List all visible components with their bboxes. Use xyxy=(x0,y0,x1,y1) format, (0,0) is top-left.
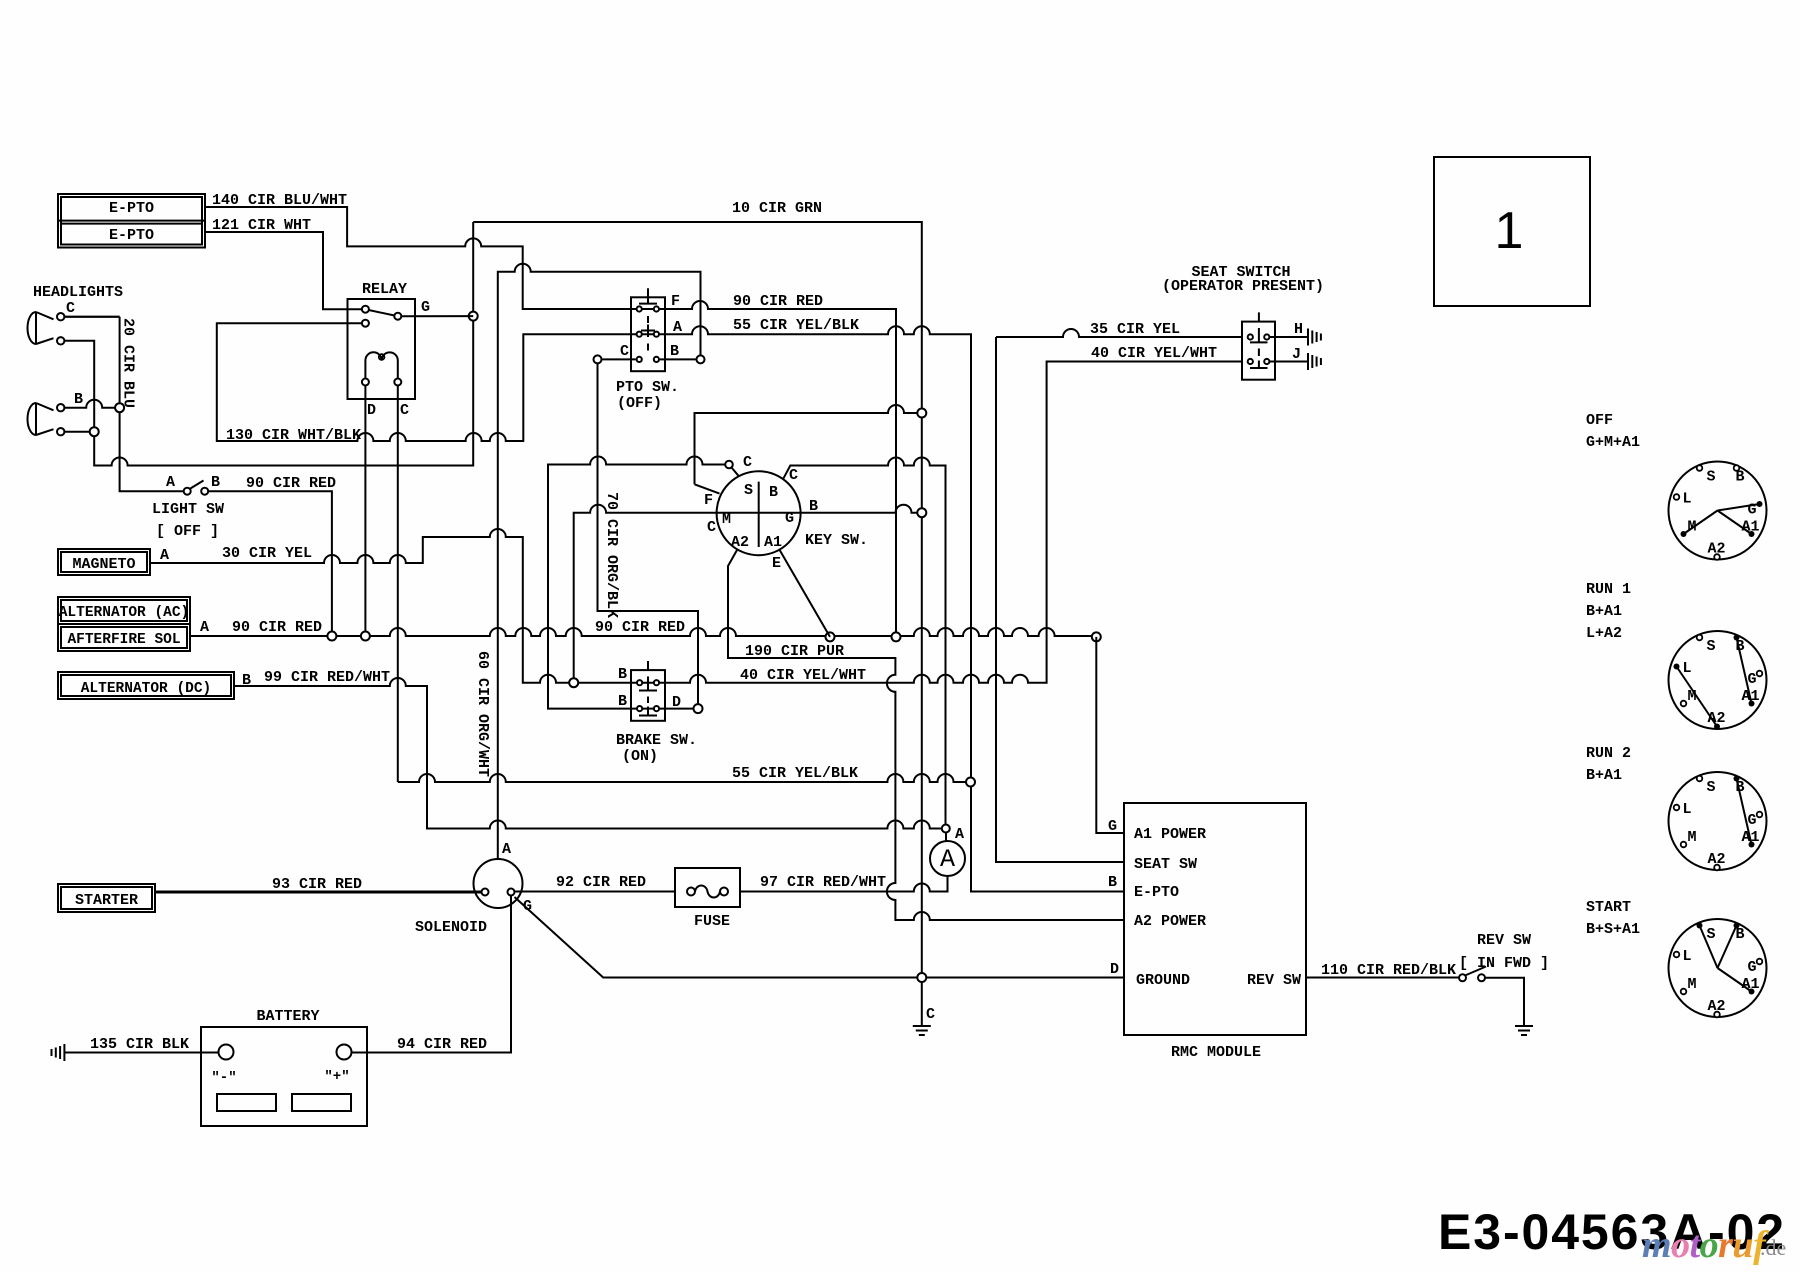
svg-text:M: M xyxy=(1688,976,1697,993)
svg-text:20 CIR BLU: 20 CIR BLU xyxy=(120,318,137,408)
component KEY SW circle xyxy=(717,471,801,555)
svg-text:G: G xyxy=(1748,812,1757,829)
svg-text:92 CIR RED: 92 CIR RED xyxy=(556,874,646,891)
wire 110 CIR RED/BLK xyxy=(1306,977,1459,979)
wire A1 POWER drop xyxy=(1096,637,1124,833)
component BATTERY box xyxy=(201,1027,367,1126)
svg-text:(ON): (ON) xyxy=(622,748,658,765)
wire 92 CIR RED xyxy=(515,891,676,893)
component relay box xyxy=(348,299,416,399)
PTO SW pin A right xyxy=(654,332,659,337)
svg-text:130 CIR WHT/BLK: 130 CIR WHT/BLK xyxy=(226,427,361,444)
wire 94 CIR RED xyxy=(352,896,512,1053)
svg-text:94 CIR RED: 94 CIR RED xyxy=(397,1036,487,1053)
svg-text:RUN 1: RUN 1 xyxy=(1586,581,1631,598)
svg-text:BRAKE SW.: BRAKE SW. xyxy=(616,732,697,749)
svg-text:ALTERNATOR (AC): ALTERNATOR (AC) xyxy=(59,605,190,621)
node G wire / 10 CIR GRN xyxy=(917,508,926,517)
wire relay D leg to 90 bus xyxy=(364,386,366,637)
wire headlight return (20 CIR BLU ground spur) xyxy=(94,222,473,466)
terminal circle lamp B bottom xyxy=(57,428,64,435)
battery cell rect 2 xyxy=(292,1094,351,1111)
svg-text:"-": "-" xyxy=(211,1070,236,1086)
terminal circle ammeter A xyxy=(942,825,950,833)
svg-text:G: G xyxy=(1748,502,1757,519)
component ALTERNATOR (AC) box xyxy=(58,597,190,624)
svg-text:KEY SW.: KEY SW. xyxy=(805,532,868,549)
svg-text:A2: A2 xyxy=(1708,998,1726,1015)
svg-text:C: C xyxy=(743,454,752,471)
component BRAKE SW box xyxy=(631,670,665,721)
svg-text:STARTER: STARTER xyxy=(75,892,138,909)
wire relay C leg down xyxy=(397,386,399,783)
wire 55 CIR YEL/BLK lower bus xyxy=(398,774,971,782)
node ground row / 10 CIR GRN xyxy=(917,973,926,982)
node brake D xyxy=(694,704,703,713)
node brake top / M wire xyxy=(569,678,578,687)
BRAKE SW pin B2 left xyxy=(637,706,642,711)
terminal circle key C xyxy=(725,461,733,469)
svg-text:A2: A2 xyxy=(1708,710,1726,727)
svg-text:G: G xyxy=(421,299,430,316)
svg-text:A: A xyxy=(673,319,682,336)
svg-text:F: F xyxy=(704,492,713,509)
SEAT SW plunger tick xyxy=(1258,312,1260,321)
node 90 bus / PTO F xyxy=(892,632,901,641)
svg-text:S: S xyxy=(1707,638,1716,655)
wire relay G to ground node xyxy=(401,315,473,317)
wire 135 CIR BLK xyxy=(65,1052,219,1054)
component SOLENOID circle xyxy=(474,859,523,908)
svg-text:S: S xyxy=(1707,469,1716,486)
wire 190 CIR PUR (key A2 to module A2 POWER) xyxy=(728,550,1124,921)
svg-text:B+A1: B+A1 xyxy=(1586,603,1622,620)
svg-text:M: M xyxy=(1688,829,1697,846)
wire solenoid G to module ground row xyxy=(515,897,1125,978)
wire 99 CIR RED/WHT to ammeter xyxy=(234,678,946,829)
svg-text:RELAY: RELAY xyxy=(362,281,407,298)
svg-text:ALTERNATOR (DC): ALTERNATOR (DC) xyxy=(81,681,212,697)
svg-text:110 CIR RED/BLK: 110 CIR RED/BLK xyxy=(1321,962,1456,979)
terminal circle lamp C top xyxy=(57,313,64,320)
svg-text:40 CIR YEL/WHT: 40 CIR YEL/WHT xyxy=(740,667,866,684)
relay contact 3 xyxy=(362,320,369,327)
headlamp C symbol xyxy=(28,312,54,344)
wire key C stub xyxy=(732,468,739,476)
switch LIGHT SW contact A xyxy=(184,488,191,495)
battery terminal minus xyxy=(219,1045,234,1060)
svg-text:C: C xyxy=(66,300,75,317)
svg-text:A1: A1 xyxy=(1742,519,1760,536)
wire seat H to ground xyxy=(1270,336,1308,338)
svg-text:G: G xyxy=(1748,959,1757,976)
PTO SW pin F left xyxy=(637,306,642,311)
relay contact 1 xyxy=(362,306,369,313)
rotary diagram RUN 2 xyxy=(1669,772,1767,870)
svg-text:C: C xyxy=(620,343,629,360)
fuse terminal right xyxy=(720,888,728,896)
BRAKE SW plunger tick xyxy=(647,661,649,670)
component MAGNETO box xyxy=(58,549,150,575)
svg-text:A2: A2 xyxy=(1708,851,1726,868)
svg-text:START: START xyxy=(1586,899,1631,916)
svg-text:L: L xyxy=(1683,948,1692,965)
svg-text:S: S xyxy=(1707,926,1716,943)
svg-text:FUSE: FUSE xyxy=(694,913,730,930)
wire 35 CIR YEL (seat H row) xyxy=(996,329,1242,862)
BRAKE SW internals xyxy=(639,677,657,716)
svg-text:A: A xyxy=(200,619,209,636)
svg-text:S: S xyxy=(744,482,753,499)
svg-text:35 CIR YEL: 35 CIR YEL xyxy=(1090,321,1180,338)
svg-text:"+": "+" xyxy=(324,1069,349,1085)
svg-text:REV SW: REV SW xyxy=(1247,972,1301,989)
wire 20 CIR BLU xyxy=(64,317,183,492)
svg-text:L+A2: L+A2 xyxy=(1586,625,1622,642)
svg-text:99 CIR RED/WHT: 99 CIR RED/WHT xyxy=(264,669,390,686)
fuse element xyxy=(695,886,720,898)
component STARTER box xyxy=(58,884,155,912)
svg-text:S: S xyxy=(1707,779,1716,796)
svg-text:LIGHT SW: LIGHT SW xyxy=(152,501,224,518)
svg-text:[ IN FWD ]: [ IN FWD ] xyxy=(1459,955,1549,972)
svg-text:L: L xyxy=(1683,491,1692,508)
wire lamp C bottom down to B-row xyxy=(64,341,94,432)
svg-text:C: C xyxy=(789,467,798,484)
svg-text:.de: .de xyxy=(1760,1235,1786,1260)
solenoid terminal right xyxy=(508,889,515,896)
svg-text:PTO SW.: PTO SW. xyxy=(616,379,679,396)
wire ammeter top stub xyxy=(945,833,947,841)
component PTO SW box xyxy=(631,297,665,371)
svg-text:[ OFF ]: [ OFF ] xyxy=(156,523,219,540)
terminal circle lamp B top xyxy=(57,404,64,411)
SEAT SW pin J right xyxy=(1264,359,1269,364)
svg-text:B+A1: B+A1 xyxy=(1586,767,1622,784)
REV SW contact left xyxy=(1459,974,1466,981)
svg-text:B: B xyxy=(1736,638,1745,655)
battery cell rect 1 xyxy=(217,1094,276,1111)
svg-text:E-PTO: E-PTO xyxy=(109,227,154,244)
wire lamp B top to 20 CIR BLU node xyxy=(64,400,119,408)
svg-text:D: D xyxy=(367,402,376,419)
svg-text:E-PTO: E-PTO xyxy=(1134,884,1179,901)
node 90 bus / relay D xyxy=(361,632,370,641)
wire 90 CIR RED bus xyxy=(190,628,1096,636)
svg-text:A1: A1 xyxy=(1742,688,1760,705)
svg-text:B: B xyxy=(769,484,778,501)
component AFTERFIRE SOL box xyxy=(58,624,190,651)
svg-text:motoruf: motoruf xyxy=(1642,1224,1769,1266)
svg-text:BATTERY: BATTERY xyxy=(256,1008,319,1025)
svg-text:55 CIR YEL/BLK: 55 CIR YEL/BLK xyxy=(732,765,858,782)
svg-text:AFTERFIRE SOL: AFTERFIRE SOL xyxy=(67,632,180,648)
ground (seat J) xyxy=(1307,353,1309,370)
wire key M-G row (to brake top node) xyxy=(574,505,922,683)
wire 97 CIR RED/WHT xyxy=(740,876,948,892)
svg-text:A1: A1 xyxy=(764,534,782,551)
REV SW contact right xyxy=(1478,974,1485,981)
wire key C to brake switch B (lower row) xyxy=(548,457,725,709)
svg-text:M: M xyxy=(1688,519,1697,536)
ground (battery) xyxy=(51,1049,53,1056)
PTO SW pin B left xyxy=(637,357,642,362)
ground (10 CIR GRN bottom) xyxy=(913,1025,931,1027)
headlamp B symbol xyxy=(28,403,54,435)
svg-text:C: C xyxy=(926,1006,935,1023)
SEAT SW pin H right xyxy=(1264,334,1269,339)
wire seat J to ground xyxy=(1270,361,1308,363)
node 90 bus / A1 POWER xyxy=(1092,632,1101,641)
PTO SW pin A left xyxy=(637,332,642,337)
wire key E spoke xyxy=(780,550,831,637)
svg-text:D: D xyxy=(672,694,681,711)
svg-text:140 CIR BLU/WHT: 140 CIR BLU/WHT xyxy=(212,192,347,209)
component sheet number box xyxy=(1434,157,1590,306)
svg-text:C: C xyxy=(400,402,409,419)
wire key F spoke xyxy=(695,405,922,494)
svg-text:MAGNETO: MAGNETO xyxy=(72,556,135,573)
wire key C2 east to ammeter xyxy=(784,458,946,829)
svg-text:B: B xyxy=(1736,926,1745,943)
svg-text:B: B xyxy=(670,343,679,360)
svg-text:G+M+A1: G+M+A1 xyxy=(1586,434,1640,451)
svg-text:(OPERATOR PRESENT): (OPERATOR PRESENT) xyxy=(1162,278,1324,295)
svg-text:B: B xyxy=(618,666,627,683)
ground (seat H) xyxy=(1307,329,1309,346)
battery terminal plus xyxy=(337,1045,352,1060)
svg-text:B: B xyxy=(1736,469,1745,486)
svg-text:B: B xyxy=(618,693,627,710)
svg-text:55 CIR YEL/BLK: 55 CIR YEL/BLK xyxy=(733,317,859,334)
solenoid terminal left xyxy=(482,889,489,896)
svg-text:97 CIR RED/WHT: 97 CIR RED/WHT xyxy=(760,874,886,891)
svg-text:A: A xyxy=(166,474,175,491)
svg-text:60 CIR ORG/WHT: 60 CIR ORG/WHT xyxy=(474,651,491,777)
key switch cross xyxy=(758,482,760,547)
svg-text:B: B xyxy=(74,391,83,408)
BRAKE SW pin B1 right xyxy=(654,680,659,685)
svg-text:OFF: OFF xyxy=(1586,412,1613,429)
svg-text:B: B xyxy=(211,474,220,491)
node 90 bus / key E xyxy=(826,632,835,641)
relay lever xyxy=(369,310,395,316)
node 90 bus / light sw xyxy=(327,632,336,641)
wire lamp C top to 20 CIR BLU xyxy=(64,316,119,318)
terminal circle lamp C bottom xyxy=(57,337,64,344)
svg-text:A: A xyxy=(955,826,964,843)
wire 93 CIR RED xyxy=(155,891,482,894)
wire 30 CIR YEL + 40 CIR YEL/WHT (brake row to seat J) xyxy=(150,362,1242,683)
node lamp return junction xyxy=(90,427,99,436)
node PTO B east xyxy=(697,355,705,363)
svg-text:(OFF): (OFF) xyxy=(617,395,662,412)
component ammeter circle xyxy=(930,841,965,876)
svg-text:90 CIR RED: 90 CIR RED xyxy=(232,619,322,636)
svg-text:90 CIR RED: 90 CIR RED xyxy=(246,475,336,492)
relay contact 2 xyxy=(394,313,401,320)
svg-text:B: B xyxy=(1108,874,1117,891)
switch LIGHT SW lever xyxy=(190,481,204,490)
svg-text:HEADLIGHTS: HEADLIGHTS xyxy=(33,284,123,301)
wire light sw B to 90 CIR RED bus xyxy=(208,491,332,636)
svg-text:1: 1 xyxy=(1495,202,1524,260)
svg-text:40 CIR YEL/WHT: 40 CIR YEL/WHT xyxy=(1091,345,1217,362)
svg-text:10 CIR GRN: 10 CIR GRN xyxy=(732,200,822,217)
rotary diagram OFF xyxy=(1669,462,1767,560)
wire 121 CIR WHT xyxy=(205,232,365,309)
SEAT SW pin H left xyxy=(1248,334,1253,339)
svg-text:A: A xyxy=(160,547,169,564)
svg-text:A: A xyxy=(940,845,955,874)
svg-text:C: C xyxy=(707,519,716,536)
svg-text:A2: A2 xyxy=(1708,541,1726,558)
wire REV SW to ground xyxy=(1485,978,1524,1026)
svg-text:SOLENOID: SOLENOID xyxy=(415,919,487,936)
node relay G / ground junction xyxy=(469,312,478,321)
wire 10 CIR GRN xyxy=(473,222,922,1026)
svg-text:GROUND: GROUND xyxy=(1136,972,1190,989)
svg-text:J: J xyxy=(1292,346,1301,363)
svg-text:RMC MODULE: RMC MODULE xyxy=(1171,1044,1261,1061)
svg-text:A2: A2 xyxy=(731,534,749,551)
svg-text:135 CIR BLK: 135 CIR BLK xyxy=(90,1036,189,1053)
relay coil xyxy=(365,352,397,378)
svg-text:A2 POWER: A2 POWER xyxy=(1134,913,1206,930)
svg-text:A1: A1 xyxy=(1742,829,1760,846)
svg-text:90 CIR RED: 90 CIR RED xyxy=(733,293,823,310)
REV SW lever xyxy=(1465,967,1486,976)
terminal circle PTO C xyxy=(594,355,602,363)
svg-text:M: M xyxy=(1688,688,1697,705)
fuse terminal left xyxy=(687,888,695,896)
svg-text:30 CIR YEL: 30 CIR YEL xyxy=(222,545,312,562)
PTO SW internals xyxy=(639,297,657,350)
svg-text:REV SW: REV SW xyxy=(1477,932,1531,949)
component SEAT SWITCH box xyxy=(1242,322,1275,380)
svg-text:G: G xyxy=(1748,671,1757,688)
node 55 bus / E-PTO drop xyxy=(966,778,975,787)
svg-text:A: A xyxy=(502,841,511,858)
component E-PTO connector (top) xyxy=(58,194,205,248)
PTO SW plunger tick xyxy=(647,288,649,297)
svg-text:SEAT SW: SEAT SW xyxy=(1134,856,1197,873)
relay coil terminal C xyxy=(394,379,401,386)
svg-text:A1 POWER: A1 POWER xyxy=(1134,826,1206,843)
svg-text:93 CIR RED: 93 CIR RED xyxy=(272,876,362,893)
svg-text:B+S+A1: B+S+A1 xyxy=(1586,921,1640,938)
svg-text:190 CIR PUR: 190 CIR PUR xyxy=(745,643,844,660)
rotary diagram START xyxy=(1669,919,1767,1017)
BRAKE SW pin B2 right xyxy=(654,706,659,711)
component FUSE box xyxy=(675,868,740,907)
ground (REV SW) xyxy=(1515,1025,1533,1027)
svg-text:E: E xyxy=(772,555,781,572)
wire 60 CIR ORG/WHT (PTO B to solenoid) xyxy=(498,264,701,859)
node 20 CIR BLU / lamp B xyxy=(115,403,124,412)
rotary diagram RUN 1 xyxy=(1669,631,1767,729)
wire 70 CIR ORG/BLK (PTO C to brake D) xyxy=(598,359,699,708)
svg-text:F: F xyxy=(671,293,680,310)
relay coil terminal D xyxy=(362,379,369,386)
component ALTERNATOR (DC) box xyxy=(58,672,234,699)
svg-text:D: D xyxy=(1110,961,1119,978)
svg-text:H: H xyxy=(1294,321,1303,338)
wire 140 CIR BLU/WHT + 90 CIR RED (PTO F row) xyxy=(205,207,896,637)
svg-text:RUN 2: RUN 2 xyxy=(1586,745,1631,762)
wire lamp B bottom to node xyxy=(64,431,94,433)
svg-text:A1: A1 xyxy=(1742,976,1760,993)
relay coil loop xyxy=(379,354,385,360)
SEAT SW internals xyxy=(1250,328,1268,368)
svg-text:B: B xyxy=(1736,779,1745,796)
PTO SW pin F right xyxy=(654,306,659,311)
PTO SW pin B right xyxy=(654,357,659,362)
svg-text:G: G xyxy=(1108,818,1117,835)
switch LIGHT SW contact B xyxy=(201,488,208,495)
svg-text:E-PTO: E-PTO xyxy=(109,200,154,217)
BRAKE SW pin B1 left xyxy=(637,680,642,685)
svg-text:L: L xyxy=(1683,660,1692,677)
node F line / 10 CIR GRN xyxy=(917,409,926,418)
svg-text:L: L xyxy=(1683,801,1692,818)
SEAT SW pin J left xyxy=(1248,359,1253,364)
svg-text:90 CIR RED: 90 CIR RED xyxy=(595,619,685,636)
wire 130 CIR WHT/BLK + 55 CIR YEL/BLK (PTO A row to module E-PTO) xyxy=(217,323,1124,891)
component RMC MODULE box xyxy=(1124,803,1306,1035)
